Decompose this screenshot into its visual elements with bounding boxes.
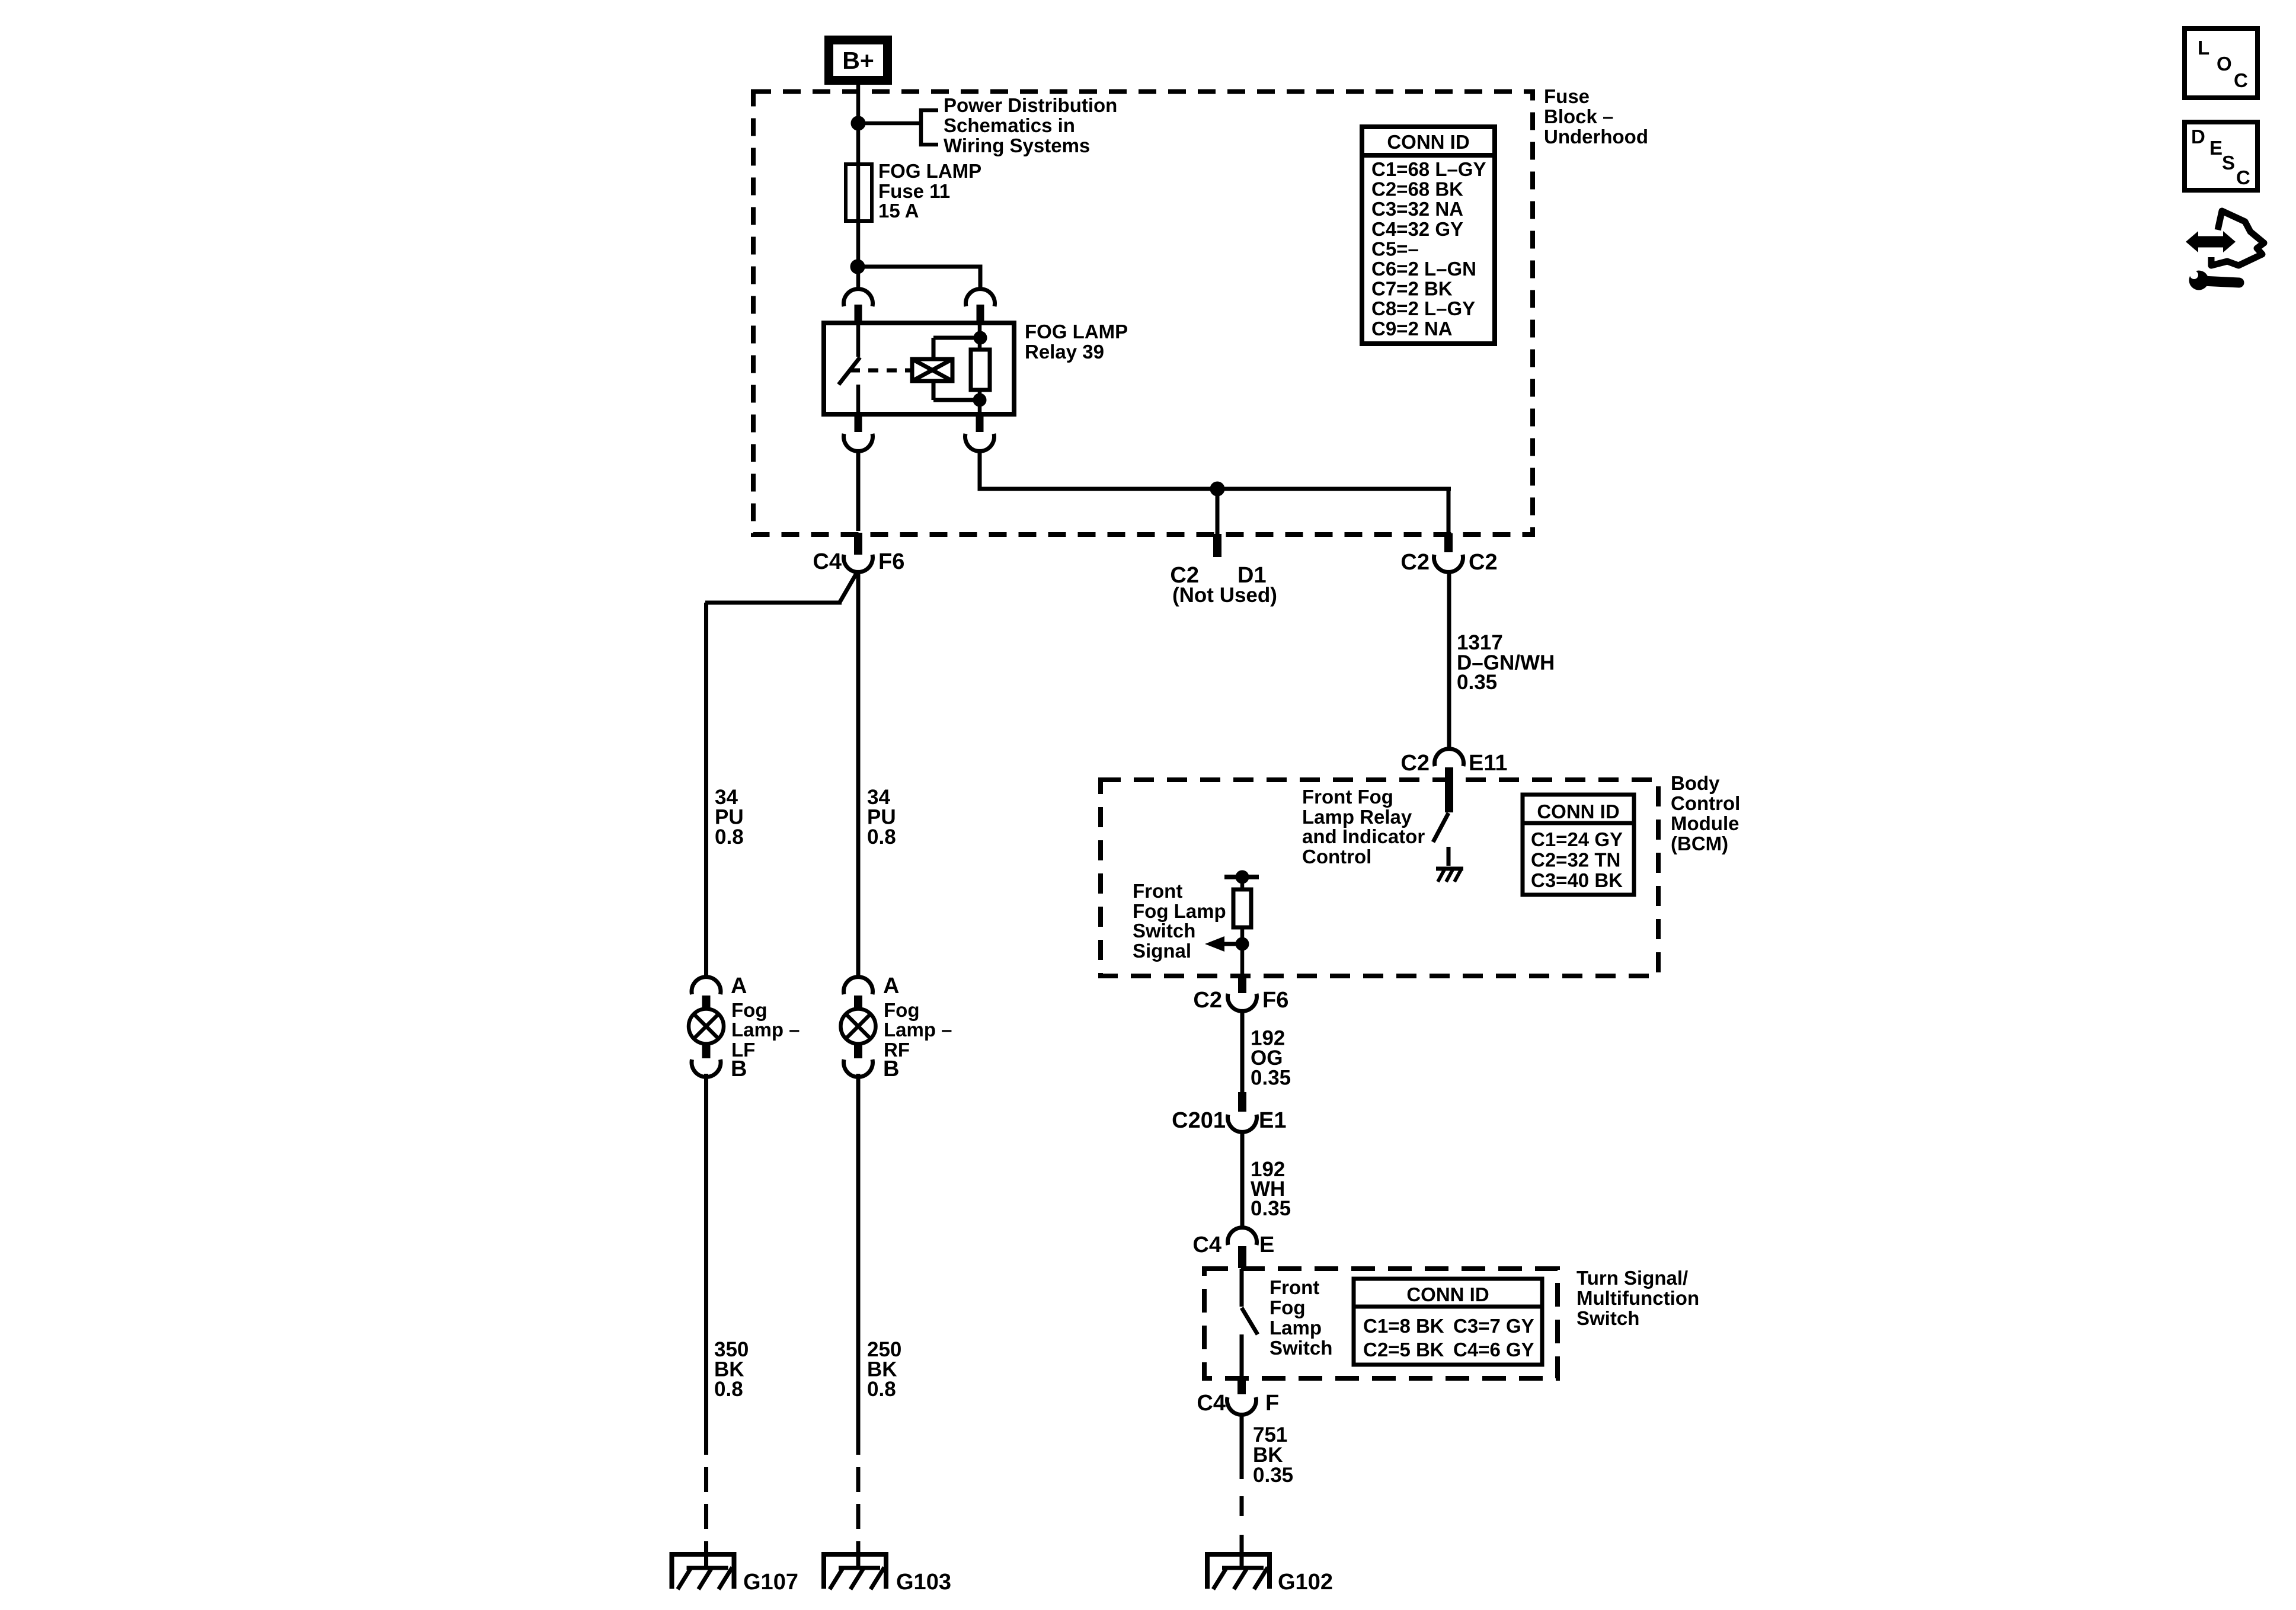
svg-text:C4: C4 xyxy=(1197,1391,1226,1416)
BCM internal pull-up rail xyxy=(1224,875,1259,879)
wire fog lamp LF dashed section xyxy=(704,1467,708,1529)
svg-text:Fuse 11: Fuse 11 xyxy=(878,180,950,202)
CONN ID table turn signal switch xyxy=(1354,1279,1542,1365)
wire relay output to BCM feed xyxy=(980,450,1451,533)
turn signal multifunction switch dashed box xyxy=(1204,1269,1558,1378)
wire branch to power distribution reference bracket xyxy=(858,110,938,145)
svg-text:C2: C2 xyxy=(1400,550,1430,575)
svg-text:C1=24 GY: C1=24 GY xyxy=(1531,828,1623,850)
relay pin bottom left xyxy=(855,417,862,432)
svg-text:C4=6 GY: C4=6 GY xyxy=(1453,1339,1534,1361)
svg-text:G107: G107 xyxy=(743,1570,798,1595)
svg-text:E1: E1 xyxy=(1259,1108,1286,1133)
svg-text:C2=32 TN: C2=32 TN xyxy=(1531,849,1620,871)
svg-text:Block –: Block – xyxy=(1544,105,1613,127)
svg-text:C7=2 BK: C7=2 BK xyxy=(1371,278,1453,300)
svg-text:Control: Control xyxy=(1671,792,1740,814)
svg-text:B+: B+ xyxy=(842,47,874,74)
BCM internal driver switch xyxy=(1433,813,1448,866)
ground G103 symbol xyxy=(821,1554,888,1589)
connector C4 F half-circle xyxy=(1227,1397,1256,1414)
CONN ID table fuse block xyxy=(1362,127,1495,344)
svg-text:B: B xyxy=(883,1057,899,1081)
fog lamp LF bulb symbol xyxy=(689,1009,724,1044)
svg-text:A: A xyxy=(731,974,747,998)
connector C2 E11 half-circle xyxy=(1435,749,1464,766)
CONN ID turn signal rows xyxy=(1363,1315,1534,1361)
svg-text:CONN ID: CONN ID xyxy=(1387,131,1469,153)
relay pin top right xyxy=(977,305,984,323)
svg-text:CONN ID: CONN ID xyxy=(1537,801,1619,822)
svg-text:C1=68 L–GY: C1=68 L–GY xyxy=(1371,158,1486,180)
svg-text:B: B xyxy=(731,1057,747,1081)
wire C4 F6 down to fog lamp RF xyxy=(856,571,861,977)
wire branch to relay coil terminal xyxy=(858,267,980,289)
wire fog lamp LF to ground solid xyxy=(704,1074,708,1455)
wire fog lamp RF to ground solid xyxy=(856,1074,861,1455)
wire stub to D1 not used xyxy=(1216,489,1220,534)
junction node coil top xyxy=(976,333,985,343)
connector pin C4 E xyxy=(1238,1246,1246,1268)
svg-text:C2: C2 xyxy=(1193,988,1222,1013)
svg-text:Control: Control xyxy=(1302,846,1371,868)
svg-text:C2: C2 xyxy=(1469,550,1498,575)
svg-text:Switch: Switch xyxy=(1269,1337,1332,1359)
svg-text:0.35: 0.35 xyxy=(1457,671,1497,694)
svg-text:L: L xyxy=(2198,37,2209,59)
DESC icon box xyxy=(2185,122,2257,190)
svg-text:Fog: Fog xyxy=(731,999,767,1021)
svg-text:0.8: 0.8 xyxy=(714,1378,743,1401)
svg-text:C: C xyxy=(2236,167,2250,188)
svg-text:Fuse: Fuse xyxy=(1544,85,1590,107)
svg-text:O: O xyxy=(2217,53,2232,75)
connector half-circle relay pin 30 top xyxy=(844,289,873,306)
service icon double arrow xyxy=(2186,231,2236,252)
BCM internal ground symbol xyxy=(1436,869,1463,882)
connector half-circle relay pin 87 bottom xyxy=(844,434,873,451)
svg-text:0.35: 0.35 xyxy=(1251,1067,1291,1090)
connector C4 F6 half-circle xyxy=(844,555,873,572)
DESC icon letters xyxy=(2191,126,2250,188)
svg-text:(BCM): (BCM) xyxy=(1671,833,1728,854)
connector half-circle relay pin 85 bottom xyxy=(965,434,994,451)
wire to G102 xyxy=(1240,1535,1244,1569)
junction node below B+ xyxy=(853,118,864,129)
wire diagonal branch to left lamp feed xyxy=(840,572,857,602)
junction node above relay xyxy=(852,261,863,272)
relay pin bottom right xyxy=(976,417,984,432)
fog lamp RF bulb symbol xyxy=(841,1009,876,1044)
svg-text:and Indicator: and Indicator xyxy=(1302,825,1425,847)
svg-text:C6=2 L–GN: C6=2 L–GN xyxy=(1371,258,1476,280)
wire B+ to fuse 11 xyxy=(856,85,861,164)
wire circuit 751 BK solid xyxy=(1240,1413,1244,1479)
relay pin top left xyxy=(855,305,862,323)
wire fog lamp RF to G103 xyxy=(856,1541,861,1569)
connector half-circle fog lamp RF pin A xyxy=(844,977,873,994)
wire circuit 1317 to BCM xyxy=(1447,571,1451,749)
wire relay to fuse block output C4 F6 xyxy=(856,450,861,531)
connector half-circle fog lamp RF pin B xyxy=(844,1060,873,1077)
svg-text:Underhood: Underhood xyxy=(1544,126,1648,148)
connector pin C2 F6 BCM xyxy=(1238,975,1246,993)
relay switch contact xyxy=(839,325,860,414)
connector pin C2 C2 xyxy=(1444,533,1453,552)
battery feed terminal B+ xyxy=(829,40,888,81)
relay internal resistor xyxy=(971,325,990,414)
svg-text:FOG LAMP: FOG LAMP xyxy=(1025,321,1128,343)
junction node resistor top xyxy=(1237,872,1247,882)
svg-text:E: E xyxy=(1259,1233,1274,1257)
connector half-circle fog lamp LF pin A xyxy=(692,977,721,994)
svg-text:F: F xyxy=(1265,1391,1279,1416)
svg-text:E11: E11 xyxy=(1469,751,1508,776)
svg-text:Turn Signal/: Turn Signal/ xyxy=(1576,1267,1688,1289)
fog lamp RF pin A xyxy=(854,996,862,1009)
svg-text:Relay 39: Relay 39 xyxy=(1025,341,1104,363)
svg-text:C9=2 NA: C9=2 NA xyxy=(1371,318,1453,340)
svg-text:Multifunction: Multifunction xyxy=(1576,1287,1699,1309)
connector half-circle fog lamp LF pin B xyxy=(692,1060,721,1077)
svg-text:0.35: 0.35 xyxy=(1251,1197,1291,1220)
svg-text:C2=5 BK: C2=5 BK xyxy=(1363,1339,1444,1361)
switch signal arrow xyxy=(1205,936,1242,952)
svg-text:Module: Module xyxy=(1671,812,1739,834)
svg-text:C5=–: C5=– xyxy=(1371,238,1419,260)
BCM internal resistor xyxy=(1233,877,1251,975)
CONN ID table BCM xyxy=(1523,795,1634,895)
svg-text:Front: Front xyxy=(1133,880,1182,902)
fuse F11 FOG LAMP 15A xyxy=(846,164,872,221)
connector pin C201 E1 xyxy=(1238,1092,1246,1112)
svg-text:Fog: Fog xyxy=(884,999,919,1021)
wire fuse to relay junction xyxy=(856,221,861,289)
svg-text:Front: Front xyxy=(1269,1276,1319,1298)
svg-text:15 A: 15 A xyxy=(878,200,919,222)
connector C2 F6 half-circle xyxy=(1228,994,1257,1011)
svg-text:C2: C2 xyxy=(1400,751,1430,776)
svg-text:C2=68 BK: C2=68 BK xyxy=(1371,178,1463,200)
svg-text:C4: C4 xyxy=(1192,1233,1221,1257)
svg-text:Fog: Fog xyxy=(1269,1297,1305,1318)
fuse block underhood dashed box xyxy=(753,92,1533,535)
svg-text:C201: C201 xyxy=(1172,1108,1226,1133)
svg-text:S: S xyxy=(2222,152,2235,174)
connector pin C4 F xyxy=(1237,1378,1246,1394)
CONN ID fuse block rows xyxy=(1371,158,1486,340)
connector pin C4 F6 xyxy=(854,533,862,555)
svg-text:Lamp: Lamp xyxy=(1269,1317,1322,1339)
svg-text:Switch: Switch xyxy=(1576,1307,1639,1329)
relay coil winding box with X xyxy=(912,338,978,400)
svg-text:F6: F6 xyxy=(878,549,904,574)
svg-text:Front Fog: Front Fog xyxy=(1302,786,1393,808)
connector half-circle relay coil pin top xyxy=(965,289,994,306)
svg-text:C3=40 BK: C3=40 BK xyxy=(1531,869,1623,891)
svg-text:C4=32 GY: C4=32 GY xyxy=(1371,218,1463,240)
svg-text:Body: Body xyxy=(1671,772,1720,794)
wire circuit 751 BK dashed section xyxy=(1240,1496,1244,1516)
svg-text:A: A xyxy=(883,974,899,998)
svg-text:C8=2 L–GY: C8=2 L–GY xyxy=(1371,297,1475,319)
fog lamp RF pin B xyxy=(854,1044,862,1058)
wire circuit 192 WH xyxy=(1240,1131,1245,1228)
svg-text:Signal: Signal xyxy=(1133,940,1191,962)
svg-text:Power Distribution: Power Distribution xyxy=(944,94,1117,116)
svg-text:C3=32 NA: C3=32 NA xyxy=(1371,198,1463,220)
svg-text:Lamp –: Lamp – xyxy=(731,1019,800,1041)
svg-text:(Not Used): (Not Used) xyxy=(1172,584,1277,607)
fog lamp LF pin B xyxy=(702,1044,711,1058)
ground G107 symbol xyxy=(670,1554,737,1589)
svg-text:Lamp –: Lamp – xyxy=(884,1019,952,1041)
connector pin C2 E11 xyxy=(1445,767,1453,812)
svg-text:C3=7 GY: C3=7 GY xyxy=(1453,1315,1534,1337)
svg-text:C: C xyxy=(2234,69,2248,91)
svg-text:C4: C4 xyxy=(813,549,842,574)
svg-text:Switch: Switch xyxy=(1133,920,1195,942)
wire horizontal branch to left lamp xyxy=(705,601,842,605)
svg-text:Fog Lamp: Fog Lamp xyxy=(1133,900,1226,922)
wire left lamp feed down xyxy=(704,603,708,977)
front fog lamp switch contact xyxy=(1242,1269,1258,1378)
wire fog lamp RF dashed section xyxy=(856,1467,861,1529)
svg-text:G103: G103 xyxy=(896,1570,951,1595)
wire circuit 192 OG xyxy=(1240,1010,1245,1092)
service icon wrench xyxy=(2184,261,2239,290)
svg-text:FOG LAMP: FOG LAMP xyxy=(878,160,981,182)
svg-text:0.35: 0.35 xyxy=(1253,1464,1293,1487)
svg-text:F6: F6 xyxy=(1262,988,1288,1013)
relay mechanical linkage dashes xyxy=(850,369,912,373)
LOC icon letters xyxy=(2198,37,2248,91)
svg-text:G102: G102 xyxy=(1278,1570,1333,1595)
LOC icon box xyxy=(2185,28,2257,98)
fog lamp LF pin A xyxy=(702,996,711,1009)
BCM dashed box xyxy=(1101,780,1658,976)
svg-text:0.8: 0.8 xyxy=(867,1378,896,1401)
connector C2 C2 half-circle xyxy=(1434,555,1463,572)
relay K39 FOG LAMP Relay box xyxy=(824,323,1014,414)
junction node coil bottom xyxy=(975,395,984,405)
svg-text:Schematics in: Schematics in xyxy=(944,114,1075,136)
wire fog lamp LF to G107 xyxy=(704,1541,708,1569)
service icon vehicle outline xyxy=(2211,211,2264,265)
svg-text:D: D xyxy=(2191,126,2205,148)
connector pin C2 D1 not used xyxy=(1213,534,1221,557)
connector C4 E half-circle xyxy=(1228,1228,1257,1245)
svg-text:Wiring Systems: Wiring Systems xyxy=(944,135,1090,156)
svg-text:0.8: 0.8 xyxy=(715,825,744,849)
ground G102 symbol xyxy=(1205,1554,1272,1589)
junction node switch signal tap xyxy=(1237,939,1247,949)
svg-text:Lamp Relay: Lamp Relay xyxy=(1302,806,1412,828)
junction node D1 stub xyxy=(1212,484,1223,494)
svg-text:0.8: 0.8 xyxy=(867,825,896,849)
CONN ID BCM rows xyxy=(1531,828,1623,891)
svg-text:C1=8 BK: C1=8 BK xyxy=(1363,1315,1444,1337)
svg-text:CONN ID: CONN ID xyxy=(1406,1283,1489,1305)
connector C201 E1 half-circle xyxy=(1228,1115,1257,1132)
svg-text:E: E xyxy=(2209,137,2223,159)
